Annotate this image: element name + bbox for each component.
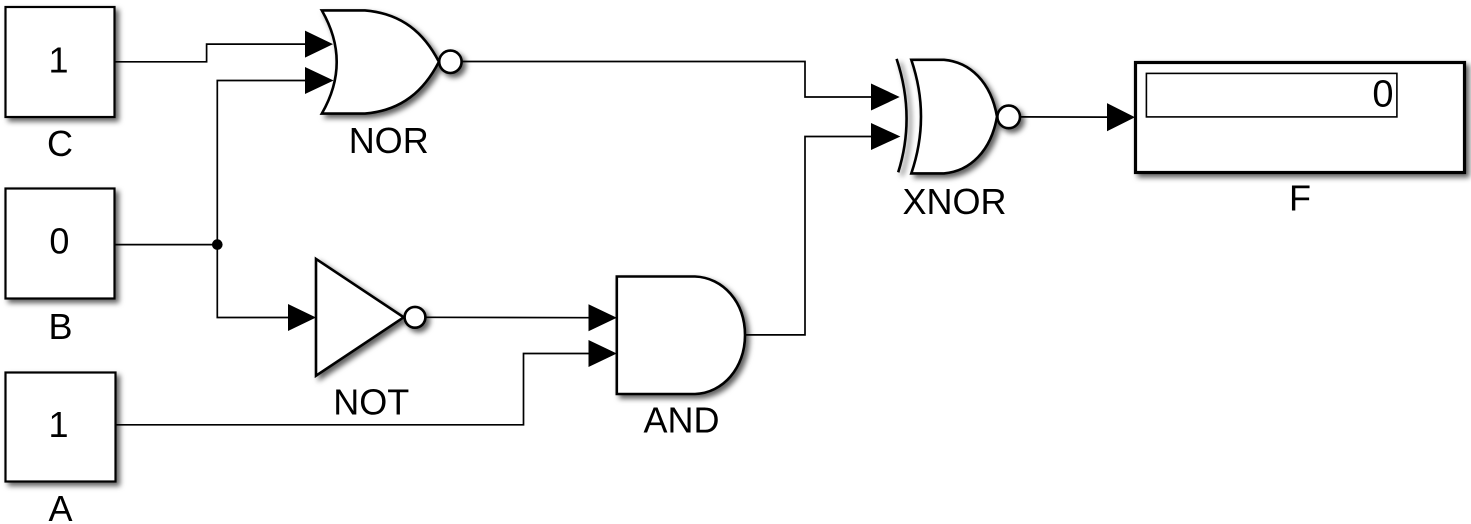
svg-text:1: 1 (48, 404, 68, 445)
svg-text:AND: AND (643, 400, 719, 441)
svg-text:XNOR: XNOR (902, 181, 1006, 222)
svg-text:1: 1 (48, 39, 68, 80)
svg-text:0: 0 (1372, 73, 1393, 115)
svg-text:F: F (1289, 178, 1311, 219)
svg-text:A: A (48, 488, 72, 524)
svg-text:NOR: NOR (349, 120, 429, 161)
svg-text:NOT: NOT (333, 381, 409, 422)
svg-text:C: C (47, 123, 73, 164)
svg-text:0: 0 (49, 221, 69, 262)
svg-text:B: B (48, 306, 72, 347)
